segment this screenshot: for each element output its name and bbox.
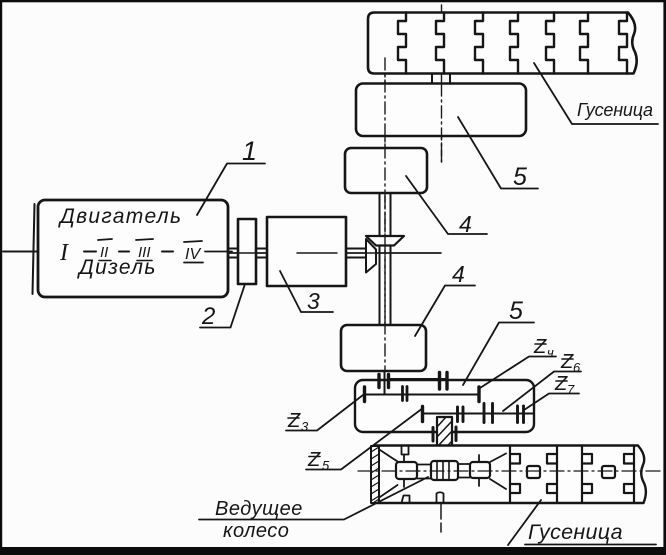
leader for label 3 — [280, 271, 333, 312]
svg-text:7: 7 — [567, 382, 575, 397]
output shaft column to drive wheel (hatched) — [437, 417, 452, 461]
leader for Gusenitsa bottom — [508, 500, 656, 545]
pin P1 lower stub — [403, 479, 405, 487]
center line bevel to right end — [346, 252, 441, 254]
roller wheel 5 (top) — [356, 84, 526, 137]
coupling box 2 — [238, 219, 256, 284]
bar at left end of shaft B — [363, 387, 366, 402]
lower vertical shaft (bevel to lower box 4) — [380, 246, 391, 325]
shaft clutch 3 to bevel pinion — [346, 249, 366, 258]
leader for label 4 lower — [415, 286, 475, 337]
bars flanking output column — [433, 427, 456, 441]
track pin P1 — [396, 462, 417, 479]
engine box 1 (Dvigatel / Dizel) — [38, 200, 228, 297]
gear Z7 bars on shaft C — [518, 406, 524, 423]
shaft engine to coupling 2 — [228, 249, 238, 258]
upper vertical shaft (box 4 to bevel crown) — [380, 193, 391, 236]
leader for label 4 upper — [406, 176, 487, 234]
shaft line C (lower) — [423, 413, 534, 415]
track link divider 4 — [510, 13, 518, 74]
leader for Z6 — [503, 372, 581, 412]
track pin P3 — [470, 462, 490, 478]
top caterpillar track band — [368, 13, 637, 74]
leader for label 2 — [200, 284, 245, 328]
gear Z4 bar at right end of shaft B — [477, 387, 480, 402]
border frame right — [663, 0, 666, 555]
main horizontal axis (engine to bevel) — [228, 252, 441, 254]
vertical center line right (x=441) — [441, 5, 443, 164]
leader for Gusenitsa top — [534, 63, 658, 124]
dash 2 — [119, 251, 129, 253]
gear Z6 bars on shaft C — [484, 404, 493, 423]
horizontal center line of bottom track — [358, 470, 660, 472]
track link divider 1 — [398, 13, 406, 74]
axis segment from IV to box edge — [205, 251, 232, 253]
svg-text:5: 5 — [509, 297, 523, 325]
svg-text:Z: Z — [307, 449, 321, 471]
svg-text:Двигатель: Двигатель — [58, 205, 182, 228]
label Z7 — [554, 373, 575, 397]
svg-text:Z: Z — [533, 336, 547, 358]
track link divider 7 — [619, 13, 627, 74]
border frame left — [0, 0, 2, 555]
bevel gear crown (on vertical shaft) — [366, 236, 404, 246]
wheel top slot — [402, 446, 409, 455]
wheel upper-left spoke line — [380, 450, 398, 462]
vertical center line left (x=385) — [384, 58, 386, 373]
center line through coupling 2 — [228, 252, 267, 254]
drive sprocket hub hatched bar (left end) — [371, 446, 379, 503]
bottom edge tab (trapezoid) — [402, 496, 410, 504]
bottom link divider 2 teeth-left — [624, 446, 634, 504]
border frame bottom — [0, 547, 666, 555]
pin P1 upper stub — [403, 455, 405, 463]
svg-text:IV: IV — [185, 246, 201, 263]
wheel lower web line P2-P3 — [458, 477, 470, 479]
svg-text:Z: Z — [287, 410, 301, 432]
shaft stub track to roller right — [449, 74, 451, 85]
track link divider 3 — [475, 13, 483, 74]
bevel gear pinion (on horizontal shaft) — [366, 239, 376, 273]
svg-text:1: 1 — [242, 136, 257, 166]
P2 inner hatch — [437, 461, 449, 480]
svg-text:4: 4 — [452, 261, 465, 287]
pin P3 upper stub — [478, 455, 480, 462]
leader for Vedushchee koleso — [199, 477, 428, 520]
svg-text:Ведущее: Ведущее — [215, 498, 303, 520]
pin P3 lower stub — [478, 478, 480, 486]
gear Z1 bars on input shaft — [379, 375, 389, 388]
wheel lower-right tooth line — [490, 479, 506, 489]
gear bars at right end of shaft A — [440, 373, 448, 390]
bottom edge notch (inverted U) — [437, 492, 444, 503]
wheel upper web line P2-P3 — [458, 463, 470, 465]
bottom link divider teeth-right — [510, 446, 520, 504]
engine box doubled left edge — [33, 204, 35, 294]
bottom caterpillar track band outline — [376, 446, 646, 504]
leader for Z5 — [306, 408, 423, 470]
leader for label 5 lower — [463, 323, 534, 386]
shaft line A (top) — [389, 378, 448, 380]
svg-text:колесо: колесо — [223, 520, 289, 542]
dash 3 — [162, 251, 173, 253]
input shaft into gearbox — [384, 371, 386, 395]
track link divider 5 — [546, 13, 554, 74]
svg-text:III: III — [138, 244, 151, 261]
dash 1 — [84, 251, 96, 253]
main horizontal axis (left of engine) — [3, 251, 38, 253]
vertical center line below drive wheel — [440, 503, 442, 532]
gearbox housing — [355, 380, 534, 432]
leader for label 5 upper — [458, 117, 538, 189]
center line inside roller (x=441) — [441, 84, 443, 164]
svg-text:6: 6 — [573, 360, 581, 375]
bottom link divider teeth-left — [547, 446, 557, 504]
shaft stub track to roller left — [431, 74, 433, 85]
leader for Z4 — [480, 357, 556, 389]
label Z6 — [560, 351, 581, 375]
link pin square 1 — [527, 466, 540, 478]
svg-text:Z: Z — [560, 351, 574, 373]
gear Z5 bar at left end of shaft C — [421, 407, 424, 422]
bottom link divider 2 teeth-right — [582, 446, 592, 504]
svg-text:I: I — [59, 240, 69, 266]
svg-text:Z: Z — [554, 373, 568, 395]
svg-text:3: 3 — [301, 419, 309, 434]
svg-text:5: 5 — [322, 458, 330, 473]
center line inside roller and box4 upper (x=385) — [384, 58, 386, 371]
svg-text:4: 4 — [459, 211, 472, 237]
svg-text:II: II — [100, 244, 108, 261]
box 4 upper (final drive) — [345, 148, 427, 193]
box 4 lower (final drive) — [341, 325, 426, 371]
svg-text:3: 3 — [307, 288, 320, 314]
wheel upper-right tooth line — [490, 454, 506, 463]
svg-text:Гусеница: Гусеница — [577, 100, 653, 120]
label Z3 — [287, 410, 309, 434]
wheel upper web line P1-P2 — [417, 464, 431, 466]
hatch of hub bar — [371, 447, 379, 503]
leader for Z3 — [286, 395, 363, 431]
drive pinion P2 — [431, 461, 458, 480]
track link divider 6 — [580, 13, 588, 74]
shaft coupling 2 to clutch 3 — [256, 249, 267, 258]
track link divider 2 — [436, 13, 444, 74]
hatch lines of output column — [437, 417, 452, 461]
label Z5 — [307, 449, 330, 473]
link pin square 2 — [602, 466, 615, 478]
svg-text:5: 5 — [513, 163, 527, 191]
gear Z3 bars on shaft B — [403, 387, 408, 401]
label Z4 — [533, 336, 554, 360]
leader for label 1 — [197, 164, 265, 216]
svg-text:ч: ч — [547, 345, 554, 360]
leader for Z7 — [524, 394, 579, 411]
center line inside clutch 3 — [297, 252, 337, 254]
gear bars pair on shaft C — [458, 407, 464, 422]
clutch box 3 — [267, 217, 346, 286]
svg-text:2: 2 — [201, 303, 215, 330]
shaft line B (middle) — [364, 394, 479, 396]
svg-text:Гусеница: Гусеница — [528, 520, 623, 544]
wheel lower web line P1-P2 — [417, 478, 431, 480]
wheel lower-left spoke line — [380, 485, 398, 497]
border frame top — [0, 0, 666, 2]
